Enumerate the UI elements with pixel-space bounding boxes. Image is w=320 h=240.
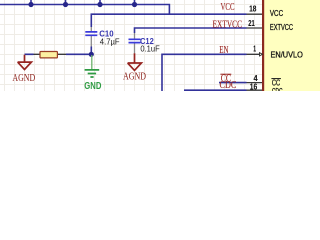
svg-text:4.7µF: 4.7µF [100,36,120,46]
svg-text:EN: EN [219,45,228,56]
svg-text:GND: GND [84,81,101,91]
svg-text:CDC: CDC [272,87,283,91]
svg-text:EN/UVLO: EN/UVLO [271,50,303,59]
svg-text:VCC: VCC [221,2,235,13]
svg-text:18: 18 [249,4,256,14]
svg-text:EXTVCC: EXTVCC [213,19,243,30]
svg-text:21: 21 [248,18,255,28]
svg-text:1: 1 [253,43,256,53]
svg-text:CC: CC [272,78,280,87]
svg-text:AGND: AGND [12,73,35,84]
svg-text:AGND: AGND [123,71,146,82]
svg-text:0.1uF: 0.1uF [140,44,159,54]
svg-text:VCC: VCC [270,9,283,18]
svg-text:EXTVCC: EXTVCC [270,23,293,32]
svg-text:16: 16 [250,82,258,91]
svg-text:CDC: CDC [220,80,237,91]
